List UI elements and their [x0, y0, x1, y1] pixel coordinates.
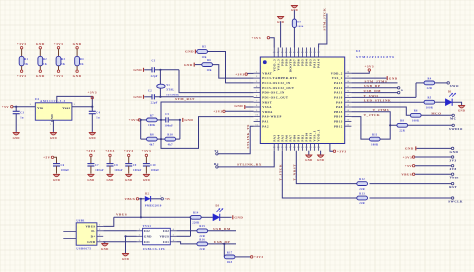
svg-text:PC14-OSC32_IN: PC14-OSC32_IN: [262, 81, 291, 85]
resistor R8 4k7: [141, 134, 158, 147]
svg-text:D-: D-: [91, 229, 95, 233]
diode D2 PMEG2010: [145, 192, 162, 207]
svg-text:D2: D2: [145, 192, 149, 195]
svg-text:+3V3: +3V3: [235, 73, 245, 77]
svg-text:GND: GND: [389, 76, 398, 80]
net label T_JTCK vertical: [279, 164, 283, 181]
svg-text:PA10: PA10: [334, 96, 343, 100]
ground at VSS_1: [317, 151, 324, 163]
svg-text:GND: GND: [184, 63, 193, 67]
svg-text:R9: R9: [297, 21, 301, 24]
power port +3V3 at connector: [403, 155, 415, 159]
wire STM_RST to NRST: [161, 102, 254, 120]
power port +3V3 at regulator output: [88, 90, 98, 98]
svg-text:100K: 100K: [148, 124, 156, 127]
ground at BOOT0 resistor: [291, 6, 298, 20]
resistor R10 4k7: [165, 134, 176, 147]
resistor R9 100k at BOOT0: [292, 19, 304, 48]
svg-text:IO2: IO2: [144, 229, 150, 233]
svg-text:R17: R17: [227, 251, 233, 254]
svg-text:42: 42: [297, 52, 300, 54]
svg-text:+3V3: +3V3: [105, 149, 115, 153]
sheet port Tx: [214, 149, 219, 155]
svg-text:100nF: 100nF: [151, 169, 160, 172]
svg-text:D+: D+: [91, 235, 96, 239]
svg-text:1: 1: [50, 124, 51, 126]
svg-text:VBUS: VBUS: [116, 213, 127, 217]
svg-text:PA11: PA11: [334, 91, 343, 95]
wire to R17 pullup: [223, 244, 225, 257]
wire VBUS to D2: [139, 198, 145, 200]
svg-text:STM32F103C8T6: STM32F103C8T6: [356, 55, 395, 59]
svg-text:4k7: 4k7: [168, 143, 173, 146]
power port +3V3 at reset network: [129, 118, 141, 122]
svg-text:10k: 10k: [202, 56, 207, 59]
wire PA14 STM_JTCK: [319, 14, 327, 48]
svg-text:T_JTCK: T_JTCK: [364, 113, 381, 117]
sheet port 4V8: [415, 165, 457, 172]
svg-text:U4: U4: [35, 97, 39, 101]
svg-text:+3V3: +3V3: [124, 149, 134, 153]
wire OSC-IN node: [159, 69, 253, 93]
net label T_SWO: [351, 83, 416, 98]
svg-text:+3V3: +3V3: [337, 150, 347, 154]
svg-text:C10: C10: [150, 164, 156, 167]
svg-text:+3V3: +3V3: [88, 90, 98, 94]
wire reset node: [157, 119, 166, 121]
svg-text:XTAL: XTAL: [166, 89, 174, 92]
wire R6 to PC13: [213, 65, 254, 79]
svg-text:VBUS: VBUS: [85, 225, 95, 229]
svg-text:+3V3: +3V3: [142, 149, 152, 153]
svg-text:+5V: +5V: [165, 198, 171, 201]
svg-text:R11: R11: [372, 134, 378, 137]
svg-text:+3V3: +3V3: [54, 42, 64, 46]
svg-text:+3V3: +3V3: [17, 42, 27, 46]
resistor R2: [38, 56, 48, 66]
svg-text:+5V: +5V: [43, 156, 51, 160]
svg-text:100R: 100R: [426, 106, 434, 109]
wire PA2 to Tx: [218, 126, 254, 154]
sheet port GND: [417, 147, 459, 154]
svg-text:AMS1117-3.3: AMS1117-3.3: [40, 99, 66, 103]
resistor R11 100R: [369, 134, 380, 147]
svg-text:GND: GND: [122, 258, 129, 261]
svg-text:+3V3: +3V3: [365, 65, 375, 69]
wire to R8 divider: [140, 120, 142, 139]
svg-text:C6: C6: [61, 164, 65, 167]
power port +3V3 above C8: [105, 149, 115, 163]
svg-text:10k: 10k: [207, 69, 212, 72]
svg-text:1: 1: [256, 71, 257, 73]
svg-text:VSS_2: VSS_2: [332, 76, 343, 80]
wire OSC-OUT node: [155, 96, 254, 98]
svg-text:GND: GND: [143, 179, 150, 182]
svg-text:PD1-OSC_OUT: PD1-OSC_OUT: [262, 96, 288, 100]
svg-text:R8: R8: [150, 134, 154, 137]
wire R11 to R8a node: [380, 125, 397, 139]
svg-text:+3V3: +3V3: [129, 118, 139, 122]
svg-text:PA9: PA9: [336, 100, 343, 104]
svg-text:2: 2: [160, 196, 161, 198]
resistor R15 22R: [197, 225, 208, 238]
svg-text:1K: 1K: [43, 63, 48, 66]
resistor R8a 22R: [397, 120, 408, 133]
ground below C8: [106, 174, 113, 182]
LED D3: [201, 205, 223, 221]
svg-text:C2: C2: [148, 90, 152, 93]
svg-text:PA13: PA13: [334, 81, 343, 85]
svg-text:R6: R6: [414, 110, 418, 113]
capacitor C9: [125, 164, 141, 174]
svg-text:+5V: +5V: [405, 164, 413, 168]
ground port at R6 pulldown: [184, 63, 194, 67]
svg-text:R13: R13: [359, 192, 365, 195]
svg-text:C1: C1: [152, 60, 156, 63]
power port +5V above C6: [43, 156, 56, 164]
svg-text:GND: GND: [36, 42, 45, 46]
net label LED_STLINK: [351, 99, 424, 103]
svg-text:IO1: IO1: [163, 240, 169, 244]
wire regulator gnd pin: [50, 120, 54, 132]
wire regulator output: [72, 104, 94, 108]
svg-text:12: 12: [255, 124, 258, 126]
sheet port SWDIO: [408, 124, 463, 131]
svg-text:C8: C8: [114, 164, 118, 167]
resistor R5 10k: [196, 46, 207, 59]
power port +3V3 at R17: [235, 255, 264, 259]
power port GND below R4: [73, 66, 82, 78]
capacitor C1: [144, 60, 160, 79]
sheet port SWO: [435, 82, 459, 88]
resistor R3: [56, 56, 66, 66]
svg-text:PA14: PA14: [317, 59, 321, 68]
svg-text:R8: R8: [400, 120, 404, 123]
wire USB VBUS: [103, 217, 114, 226]
resistor R4: [75, 56, 85, 66]
wire USB D+ to TVS: [103, 241, 136, 243]
wire VDD_3: [270, 38, 275, 48]
svg-text:2: 2: [74, 104, 75, 106]
ground port at D3: [219, 215, 243, 219]
svg-text:GND: GND: [185, 50, 194, 54]
capacitor C7: [87, 164, 103, 174]
svg-text:MC: MC: [450, 117, 457, 121]
svg-text:32: 32: [347, 91, 350, 93]
svg-text:PA12: PA12: [334, 86, 343, 90]
wire PA5 to R13: [282, 151, 357, 198]
svg-text:4k7: 4k7: [149, 143, 154, 146]
wire PA3 to Rx: [218, 151, 274, 167]
resistor R7 100K: [147, 114, 158, 127]
svg-text:1K: 1K: [80, 63, 85, 66]
svg-text:3V3: 3V3: [450, 159, 457, 163]
ground at regulator: [50, 133, 57, 141]
svg-text:C5: C5: [165, 113, 169, 116]
svg-text:PA0-WKUP: PA0-WKUP: [262, 115, 282, 119]
net label STM_JTCK vertical: [322, 8, 326, 31]
capacitor C2: [144, 90, 158, 105]
svg-text:21: 21: [305, 147, 308, 149]
power port +5V at regulator input: [2, 105, 13, 109]
voltage regulator U4: [35, 97, 72, 122]
ground port at C1: [133, 68, 143, 72]
svg-text:+3V3: +3V3: [86, 149, 96, 153]
wire regulator tab to output: [57, 96, 93, 106]
svg-text:GND: GND: [133, 95, 142, 99]
svg-text:GND: GND: [458, 109, 465, 112]
ground at PB10: [305, 151, 312, 163]
svg-text:+5V: +5V: [2, 105, 10, 109]
svg-text:GND: GND: [305, 159, 312, 162]
svg-text:C3: C3: [20, 112, 24, 115]
net label USB_DP at R16: [208, 240, 236, 245]
svg-text:PD0-OSC_IN: PD0-OSC_IN: [262, 91, 285, 95]
svg-text:4V8: 4V8: [450, 167, 457, 171]
svg-text:R12: R12: [359, 178, 365, 181]
wire USB D- to TVS: [103, 230, 136, 232]
TVS diode array TVS1 USBLC6-2P6: [137, 224, 177, 251]
svg-text:22: 22: [309, 147, 312, 149]
svg-text:R1: R1: [24, 58, 28, 61]
svg-text:100nF: 100nF: [133, 169, 142, 172]
wire VBUS rail: [114, 199, 192, 219]
ground port at VSS_2: [351, 76, 397, 80]
svg-text:220R: 220R: [192, 222, 200, 225]
svg-text:1K: 1K: [61, 63, 66, 66]
power port GND below R2: [36, 66, 45, 78]
power port +3V3 above R1: [17, 42, 27, 57]
svg-text:IO2: IO2: [163, 229, 169, 233]
power port +5V at connector: [405, 164, 415, 168]
resistor R17 1K5: [224, 251, 235, 264]
svg-text:STM_JTCK: STM_JTCK: [322, 8, 326, 31]
power port +3V3 below R1: [17, 66, 27, 78]
wire R5 to PC14: [208, 52, 254, 83]
svg-text:22R: 22R: [359, 202, 365, 205]
svg-text:GND: GND: [184, 118, 193, 122]
ground below C7: [87, 174, 94, 182]
USB connector USB1: [63, 218, 103, 250]
wire PB15 T_JTMS: [351, 112, 391, 127]
svg-text:100K: 100K: [412, 120, 420, 123]
capacitor C6: [53, 164, 69, 174]
wire TVS IO2 to R15: [176, 230, 197, 232]
power port +3V3 at VDDA: [213, 109, 253, 113]
svg-text:SWCLK: SWCLK: [448, 200, 463, 204]
net label MCO: [421, 111, 452, 115]
sheet port Vbus: [415, 173, 459, 180]
capacitor C3: [13, 107, 25, 132]
svg-text:22R: 22R: [359, 188, 365, 191]
svg-text:22R: 22R: [427, 87, 433, 90]
power port +3V3 above R3: [54, 42, 64, 57]
capacitor C4: [89, 107, 101, 132]
resistor R16 22R: [197, 238, 208, 251]
svg-text:SWDIO: SWDIO: [449, 127, 463, 131]
ground at USB GND pin: [101, 242, 109, 251]
LED D1: [435, 91, 456, 106]
svg-text:VBUS: VBUS: [125, 197, 136, 201]
svg-text:C9: C9: [133, 164, 137, 167]
ground below C6: [53, 174, 60, 182]
svg-text:STLINK_TX: STLINK_TX: [246, 124, 250, 149]
net label STM_RST: [175, 97, 195, 101]
capacitor C10: [143, 164, 159, 174]
svg-text:NRST: NRST: [262, 100, 272, 104]
svg-text:PMEG2010: PMEG2010: [145, 204, 162, 208]
svg-text:R4: R4: [427, 77, 431, 80]
svg-text:100nF: 100nF: [164, 125, 173, 128]
svg-text:Rx: Rx: [214, 162, 219, 166]
svg-text:STM_RST: STM_RST: [175, 97, 195, 101]
svg-text:PC15-OSC32_OUT: PC15-OSC32_OUT: [262, 86, 294, 90]
svg-text:1K: 1K: [24, 63, 29, 66]
svg-text:VBUS: VBUS: [159, 235, 169, 239]
ground below TVS: [122, 254, 129, 261]
svg-text:GND: GND: [50, 137, 57, 140]
svg-text:PC13-TAMPER-RTC: PC13-TAMPER-RTC: [262, 76, 298, 80]
net label USB_DM at R15: [208, 227, 236, 231]
svg-text:100R: 100R: [371, 143, 379, 146]
svg-text:SWO: SWO: [450, 84, 459, 88]
svg-text:PA8: PA8: [336, 105, 343, 109]
wire +3V3 to R7: [140, 119, 147, 121]
svg-text:R2: R2: [43, 58, 47, 61]
svg-text:GND: GND: [73, 42, 82, 46]
resistor R6a 100K: [410, 110, 421, 123]
svg-text:Vbus: Vbus: [450, 176, 460, 180]
power port +3V3 above C7: [86, 149, 96, 163]
svg-text:Y1: Y1: [166, 84, 170, 87]
crystal Y1: [157, 70, 180, 97]
svg-text:PB12: PB12: [334, 124, 343, 128]
power port +3V3 above C9: [124, 149, 134, 163]
svg-text:1: 1: [139, 229, 140, 231]
resistor R12 22R: [357, 178, 368, 191]
net label USB_DP: [351, 84, 403, 92]
power port GND above R2: [36, 42, 45, 57]
power port +3V3 at VBAT: [235, 73, 253, 77]
wire divider mid node: [157, 120, 165, 140]
svg-text:R5: R5: [202, 46, 206, 49]
svg-text:GND: GND: [106, 179, 113, 182]
svg-text:C4: C4: [96, 112, 100, 115]
power port +3V3 below R3: [54, 66, 64, 78]
svg-text:16/32MHz: 16/32MHz: [166, 93, 180, 96]
wire TVS GND: [124, 235, 136, 253]
ground at VSS_3: [277, 17, 284, 48]
wire TVS VBUS to rail: [176, 217, 190, 236]
svg-text:22R: 22R: [399, 130, 405, 133]
capacitor C8: [107, 164, 123, 174]
svg-text:C7: C7: [95, 164, 99, 167]
svg-text:R3: R3: [61, 58, 65, 61]
svg-text:Vout: Vout: [62, 106, 70, 110]
svg-text:TVS1: TVS1: [143, 224, 152, 228]
svg-text:Vin: Vin: [37, 106, 43, 110]
svg-text:GND: GND: [101, 247, 109, 251]
svg-text:VDD_2: VDD_2: [331, 71, 343, 75]
capacitor C5: [164, 113, 181, 128]
power port +3V3 at VDD_2: [351, 65, 374, 74]
microcontroller U3 STM32F103C8T6: [254, 48, 352, 151]
svg-text:VBUS: VBUS: [401, 173, 412, 177]
power port +3V3 at VDD_3: [251, 36, 269, 40]
wire TVS IO1 to R16: [176, 242, 197, 244]
svg-text:R5: R5: [427, 97, 431, 100]
power port VBUS at D2: [125, 197, 139, 201]
ground port at C5: [183, 118, 194, 122]
svg-text:GND: GND: [89, 137, 96, 140]
svg-text:USBLC6-2P6: USBLC6-2P6: [143, 247, 165, 251]
resistor R5a 100R: [424, 97, 435, 110]
wire R10 to C5 node: [176, 120, 180, 139]
ground port at VSSA: [234, 104, 253, 109]
svg-text:PA1: PA1: [262, 120, 269, 124]
svg-text:100nF: 100nF: [95, 169, 104, 172]
svg-text:IO1: IO1: [144, 240, 150, 244]
svg-text:GND: GND: [73, 74, 82, 78]
wire +5V input: [13, 104, 35, 108]
net label T_NRST vertical: [292, 164, 296, 181]
svg-text:USB1: USB1: [76, 218, 85, 222]
svg-text:R4: R4: [80, 58, 84, 61]
net label USB_DM: [351, 89, 400, 94]
svg-text:1K5: 1K5: [227, 261, 233, 264]
ground below C10: [143, 174, 150, 182]
wire PB14 T_JTCK: [351, 117, 369, 140]
sheet port MC: [450, 114, 457, 121]
svg-text:+3V3: +3V3: [54, 74, 64, 78]
svg-text:GND: GND: [234, 216, 243, 220]
svg-text:22R: 22R: [199, 248, 205, 251]
ground port at C2: [133, 95, 143, 99]
resistor R14 220R: [191, 212, 202, 225]
power port +3V3 above C10: [142, 149, 152, 163]
sheet port 3V3: [415, 156, 457, 163]
svg-text:GND: GND: [144, 235, 152, 239]
svg-text:GND: GND: [405, 147, 414, 151]
svg-text:+3V3: +3V3: [213, 109, 223, 113]
svg-text:R15: R15: [199, 225, 205, 228]
svg-text:1u: 1u: [20, 117, 24, 120]
ground below C9: [125, 174, 132, 182]
svg-text:+3V3: +3V3: [403, 155, 413, 159]
svg-text:PB15: PB15: [334, 110, 343, 114]
svg-text:VDDA: VDDA: [262, 110, 273, 114]
svg-text:100uF: 100uF: [61, 169, 70, 172]
ground at C3: [13, 133, 20, 141]
svg-text:100k: 100k: [297, 25, 304, 28]
sheet port SWCLK: [370, 197, 463, 204]
svg-text:GND: GND: [234, 104, 243, 108]
resistor R4 22R: [416, 77, 435, 90]
label U3 designator: [356, 49, 395, 59]
power port +3V3 at VDD_1: [330, 144, 347, 154]
svg-text:2: 2: [139, 235, 140, 237]
ground port at R5 pullup: [185, 50, 195, 54]
ground at LED D1: [452, 102, 465, 112]
svg-text:+3V3: +3V3: [251, 36, 261, 40]
svg-text:R7: R7: [150, 114, 154, 117]
wire PA8 to R6a: [351, 107, 410, 115]
sheet port Rx: [214, 162, 219, 168]
resistor R13 22R: [357, 192, 368, 205]
svg-text:31: 31: [347, 96, 350, 98]
svg-text:PA2: PA2: [262, 124, 269, 128]
sheet port RST: [370, 182, 458, 189]
